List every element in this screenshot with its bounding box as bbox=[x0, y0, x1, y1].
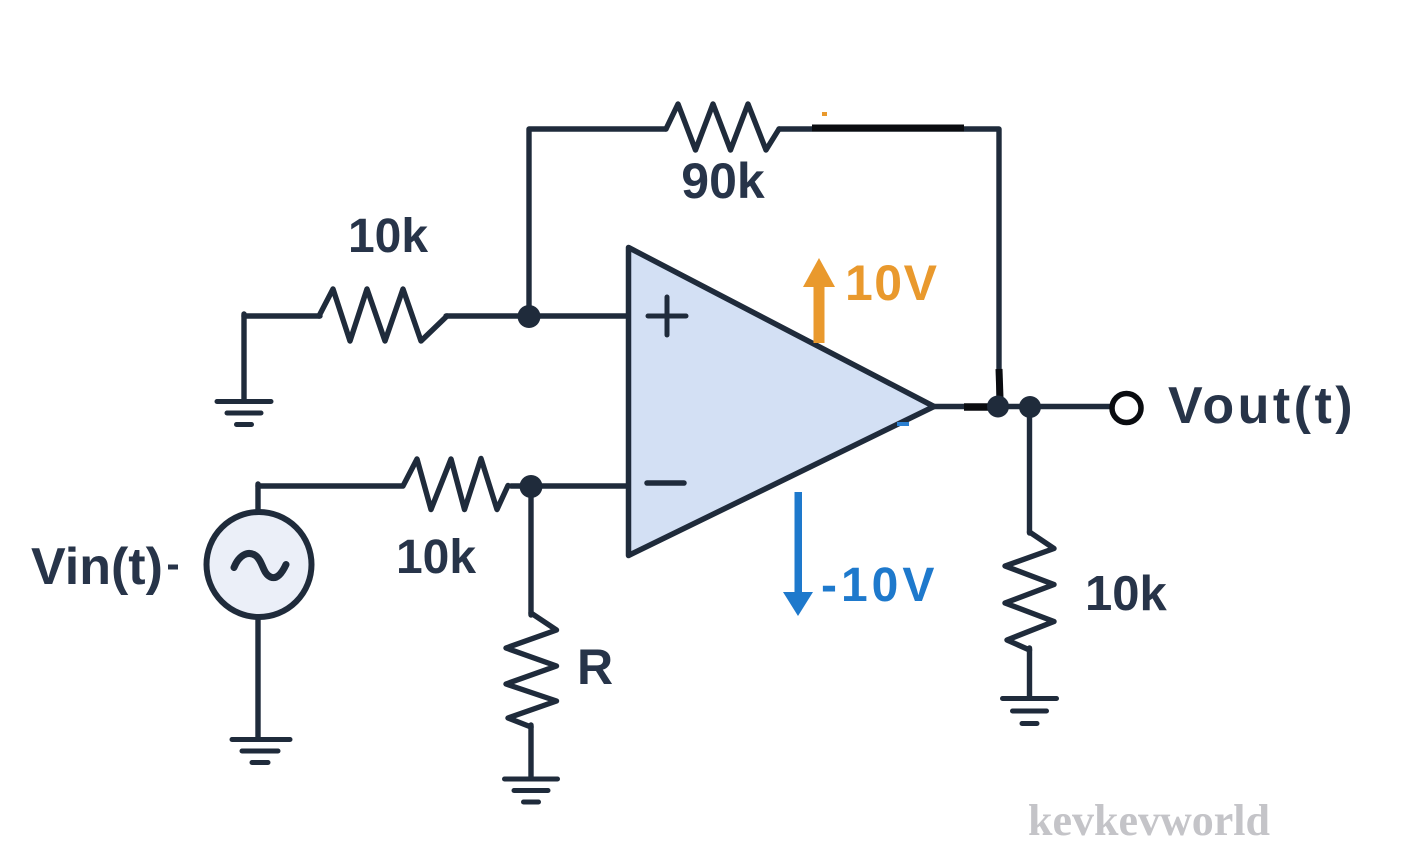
resistor R2 90k bbox=[666, 104, 779, 150]
wire: Vin bottom bbox=[255, 616, 260, 737]
svg-text:Vin(t): Vin(t) bbox=[31, 538, 163, 596]
wire: inverting input right bbox=[511, 483, 628, 488]
op-amp U1 bbox=[629, 248, 935, 556]
svg-text:10V: 10V bbox=[845, 255, 938, 311]
wire: feedback left vertical bbox=[529, 129, 666, 316]
sine symbol bbox=[234, 553, 286, 577]
wire: inverting input left bbox=[258, 483, 402, 488]
svg-text:R: R bbox=[577, 639, 613, 695]
wire: load to ground bbox=[1027, 648, 1032, 697]
junction dot at - input bbox=[520, 475, 543, 498]
svg-text:10k: 10k bbox=[1085, 567, 1168, 621]
wire: noninverting input left bbox=[244, 313, 320, 318]
junction dot at + input bbox=[518, 305, 541, 328]
op-amp + pin mark bbox=[648, 297, 686, 335]
orange speck artifact bbox=[822, 112, 827, 116]
resistor R4 (R) bbox=[506, 613, 557, 727]
wire: R branch vertical bbox=[528, 486, 533, 615]
wire: R to ground bbox=[528, 725, 533, 777]
ground G3 (R) bbox=[505, 779, 558, 802]
wire: load branch top bbox=[1027, 407, 1032, 533]
svg-text:kevkevworld: kevkevworld bbox=[1028, 796, 1270, 845]
dash after Vin(t) bbox=[168, 565, 178, 570]
wire: output bbox=[931, 404, 1110, 409]
blue artifact dash under op-amp bbox=[897, 422, 909, 426]
op-amp - pin mark bbox=[647, 480, 684, 486]
junction dot output 2 bbox=[1019, 396, 1041, 418]
wire: Vin top bbox=[255, 484, 260, 513]
resistor R3 10k bbox=[403, 459, 508, 510]
resistor R1 10k bbox=[319, 289, 447, 341]
black touch-up vertical above output node bbox=[999, 369, 1000, 398]
supply arrow +10V bbox=[803, 258, 835, 343]
svg-text:90k: 90k bbox=[681, 153, 765, 209]
junction dot output 1 bbox=[987, 396, 1009, 418]
resistor R5 10k bbox=[1005, 532, 1054, 650]
svg-text:Vout(t): Vout(t) bbox=[1168, 377, 1356, 435]
svg-text:-10V: -10V bbox=[821, 559, 938, 612]
svg-text:10k: 10k bbox=[396, 531, 476, 584]
source V1 circle bbox=[207, 512, 312, 617]
output terminal circle bbox=[1112, 394, 1141, 423]
black touch-up on output wire bbox=[964, 403, 988, 411]
svg-text:10k: 10k bbox=[348, 210, 428, 263]
wire: ground drop left bbox=[241, 314, 246, 400]
ground G2 (Vin) bbox=[232, 740, 290, 763]
wire: noninverting input right bbox=[446, 313, 628, 318]
black touch-up on top wire bbox=[812, 125, 964, 132]
ground G4 (load) bbox=[1003, 699, 1057, 724]
ground G1 (left input) bbox=[217, 402, 271, 425]
supply arrow -10V bbox=[783, 492, 813, 616]
wire: feedback top right bbox=[779, 129, 999, 404]
